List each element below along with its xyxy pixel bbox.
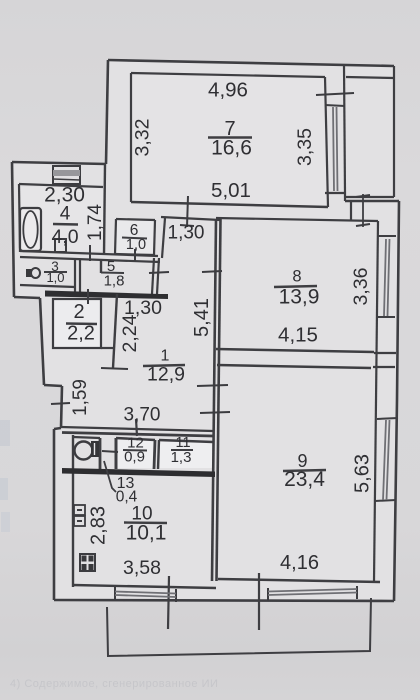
svg-text:1: 1 (161, 348, 170, 365)
label room 1 fraction bar (143, 365, 185, 366)
room 9 bottom inner wall (218, 579, 380, 582)
room 7 bottom wall line 2 (161, 217, 220, 220)
vent shaft box (53, 166, 80, 184)
room 3 right wall line 1 (74, 259, 76, 293)
label room 11 fraction bar (171, 449, 193, 451)
room 12 box left wall (115, 438, 118, 469)
room 7 interior fill (131, 73, 328, 207)
bathtub (20, 208, 41, 251)
room 11 interior fill (160, 442, 212, 468)
balcony bottom edge top (345, 196, 394, 198)
toilet box right wall (99, 438, 102, 469)
room 8 window glazing (384, 239, 390, 316)
svg-text:4: 4 (60, 204, 71, 225)
toilet room 3 (26, 268, 40, 278)
wall outer left mid (40, 298, 44, 385)
room 8/9 right inner wall (374, 221, 378, 581)
room 8 window bottom cap (377, 316, 395, 318)
room 2 interior fill (53, 299, 101, 348)
corridor left wall lower line 2 (157, 258, 159, 294)
door tick room7-corridor (180, 225, 194, 226)
tick 2,24 bottom (101, 368, 128, 369)
dark wall band below rooms 3/5 (45, 291, 168, 300)
room 8 window top cap (378, 235, 396, 237)
room 9 top wall (217, 365, 371, 368)
door line room 2 (87, 289, 89, 304)
wall outer left lower (61, 386, 62, 428)
balcony top inner line (346, 77, 394, 78)
label room 9 fraction bar (283, 470, 326, 471)
wall rooms 4/5 line 1 (20, 251, 158, 256)
room 8 bottom wall (216, 349, 374, 352)
svg-text:1,30: 1,30 (168, 223, 205, 244)
wall step right (44, 385, 62, 386)
svg-text:4,15: 4,15 (278, 324, 318, 347)
wall step small (54, 428, 61, 429)
dim tick b (356, 224, 370, 226)
corridor left wall lower line 1 (152, 258, 154, 294)
svg-text:1,74: 1,74 (85, 204, 106, 241)
room 13 leader line (104, 461, 116, 492)
wall rooms 4/5 line 2 (20, 257, 160, 262)
room 3 right wall line 2 (79, 259, 81, 293)
svg-text:23,4: 23,4 (284, 468, 325, 491)
room 11 box left wall (158, 440, 159, 469)
svg-text:5,01: 5,01 (211, 179, 251, 202)
room 6 interior fill (116, 220, 154, 254)
svg-text:13,9: 13,9 (279, 286, 320, 309)
tick left wall 1,59 (51, 403, 70, 404)
toilet box top (73, 437, 100, 438)
room 9 bottom window cap right (356, 586, 358, 599)
svg-text:4,96: 4,96 (208, 79, 248, 102)
wall outer left of room 10 (53, 429, 56, 600)
corridor-room8 wall line 1 (212, 219, 216, 581)
room 3 bottom inner wall (20, 285, 75, 287)
wall step to left block (12, 162, 106, 164)
door line corridor-room 12 (136, 419, 137, 436)
svg-text:0,9: 0,9 (124, 449, 145, 466)
label room 3 fraction bar (44, 271, 67, 273)
room 12 interior fill (117, 440, 154, 468)
tick wall 4/5 (89, 245, 91, 261)
label room 10 fraction bar (124, 521, 167, 524)
label room 5 fraction bar (101, 272, 124, 275)
room 11 box top (159, 440, 213, 442)
wall outer left of left block (12, 162, 14, 297)
room 10 window glazing (115, 592, 176, 598)
electric panel symbol (74, 505, 85, 526)
room 7 bottom wall line 1 (131, 202, 328, 207)
wall outer bottom of left block (14, 297, 40, 298)
dark wall band below boxes (62, 468, 215, 477)
label room 12 fraction bar (123, 449, 147, 452)
tick corridor wall 1 (202, 271, 222, 272)
blue smudge 1 (0, 420, 10, 446)
room 2 box (53, 299, 101, 348)
balcony door stroke right (258, 573, 260, 630)
room 4 interior fill (20, 187, 104, 251)
door line room7-corridor (187, 196, 188, 227)
label room 2 fraction bar (66, 322, 97, 325)
wall F niche (350, 201, 352, 220)
wall jog B (344, 193, 346, 201)
door tick room 5 (149, 272, 169, 273)
dim tick a (356, 195, 370, 197)
wall band right joint b (373, 366, 395, 368)
room 10 window cap right (175, 589, 177, 602)
toilet room 12 (75, 441, 100, 460)
room 10 bottom inner wall (73, 585, 216, 588)
svg-text:1,59: 1,59 (70, 379, 91, 416)
room 9 window bottom cap (375, 500, 396, 501)
vent symbol (80, 554, 95, 571)
tick corridor wall 2 (197, 385, 228, 386)
dim line room 8 top right (362, 194, 364, 227)
label room 8 fraction bar (274, 286, 317, 287)
svg-text:1,0: 1,0 (126, 237, 146, 253)
svg-text:1,8: 1,8 (104, 273, 125, 290)
room 12 box right wall (154, 440, 155, 469)
wall band right joint a (374, 352, 396, 354)
balcony outline bottom (107, 598, 371, 656)
room 9 window glazing (383, 420, 390, 500)
svg-text:3,58: 3,58 (123, 557, 161, 579)
door notch room 4 (55, 239, 66, 252)
svg-text:3,70: 3,70 (124, 405, 161, 426)
room 10 window cap left (114, 587, 116, 600)
svg-text:8: 8 (292, 268, 301, 286)
room 7 inner top wall (131, 73, 325, 77)
blue smudge 2 (0, 478, 8, 500)
wall outer bottom (54, 600, 394, 601)
room 4 right wall (104, 164, 105, 255)
wall stub room 5 left (100, 259, 102, 273)
svg-text:3,36: 3,36 (350, 268, 372, 306)
svg-text:2,83: 2,83 (87, 506, 109, 545)
tick corridor wall 3 (200, 412, 230, 413)
room 2 bottom extension (101, 347, 113, 349)
wall top of rooms 12/11 line 1 (61, 427, 213, 431)
svg-text:4,16: 4,16 (280, 552, 319, 574)
svg-text:4,0: 4,0 (51, 226, 78, 248)
svg-text:2,24: 2,24 (119, 314, 141, 352)
svg-text:1,0: 1,0 (46, 270, 64, 285)
room 7 window top cap (325, 105, 345, 106)
wall line C top of room 8 right (345, 200, 399, 202)
blue smudge 3 (1, 512, 10, 532)
room 10 inner left wall (72, 435, 74, 587)
room 13 connector line (102, 451, 118, 452)
balcony right edge top (393, 66, 395, 197)
svg-text:2: 2 (73, 301, 84, 323)
svg-text:2,2: 2,2 (67, 323, 95, 345)
svg-text:4) Содержимое, сгенерированное: 4) Содержимое, сгенерированное ИИ (10, 678, 218, 690)
apartment footprint fill (12, 60, 399, 601)
room 7 window wall outer (344, 66, 345, 193)
room 7 window glazing (333, 107, 338, 191)
wire: outer top wall (108, 60, 394, 66)
corridor-room8 wall line 2 (217, 219, 221, 581)
balcony door stroke left (168, 576, 169, 629)
room 4 inner top wall (19, 184, 103, 187)
svg-text:5,41: 5,41 (191, 298, 213, 337)
room 4 inner left wall (19, 184, 20, 252)
dim tick room 7 window (316, 93, 354, 95)
room 7 inner left wall (130, 73, 132, 202)
wall top of rooms 12/11 line 2 (62, 433, 213, 437)
room 8 inner top wall (216, 218, 378, 221)
svg-text:12,9: 12,9 (147, 364, 185, 386)
svg-text:5,63: 5,63 (351, 454, 373, 493)
room 6 box (115, 219, 155, 255)
room 12 box top (116, 438, 155, 440)
door tick room 6 (134, 249, 136, 261)
room 7 inner right wall (325, 77, 328, 207)
corridor left wall upper (162, 218, 165, 258)
room 9 window top cap (377, 418, 398, 419)
svg-text:1,3: 1,3 (171, 449, 192, 466)
window cap A room 7 (325, 192, 346, 194)
label room 7 fraction bar (208, 136, 252, 138)
svg-text:16,6: 16,6 (211, 137, 252, 160)
svg-text:3,32: 3,32 (132, 119, 154, 157)
label room 4 fraction bar (53, 223, 78, 226)
room 9 bottom window cap left (267, 588, 269, 601)
svg-text:3,35: 3,35 (294, 128, 316, 166)
svg-text:10,1: 10,1 (126, 522, 167, 545)
wall outer left of room 7 (106, 60, 108, 164)
label room 6 fraction bar (122, 238, 147, 239)
room 9 bottom window glazing (268, 589, 357, 595)
corridor wall 2,24 (113, 294, 117, 368)
wall outer right (394, 201, 399, 601)
